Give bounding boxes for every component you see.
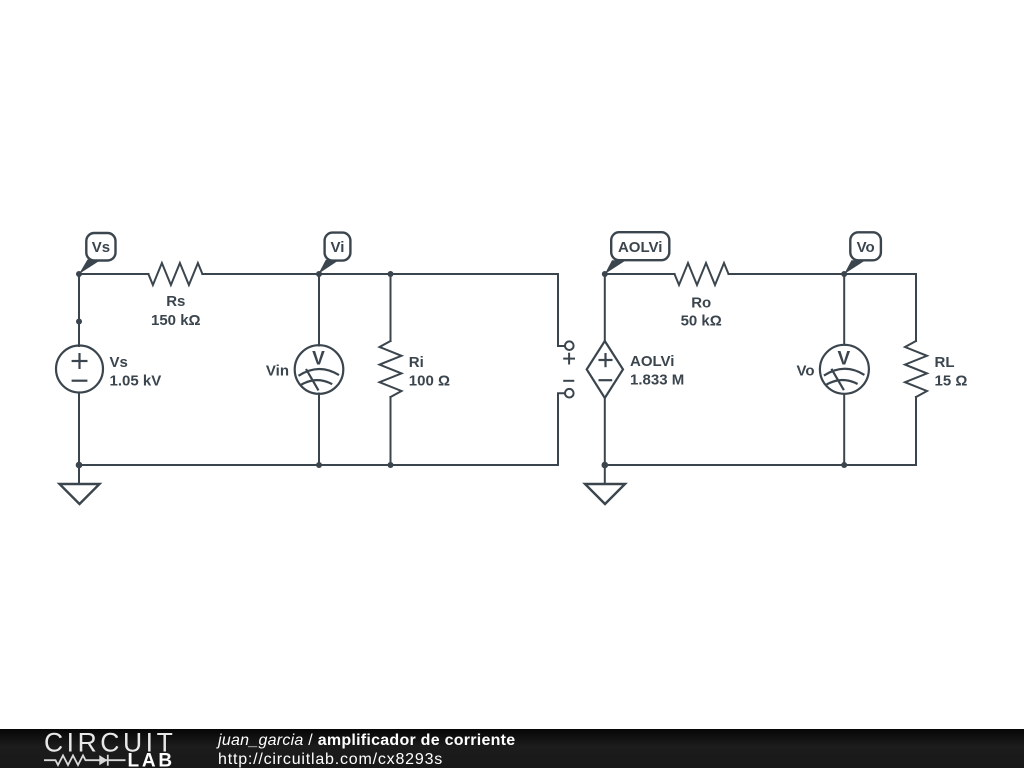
wire Vo node to top-right corner xyxy=(844,273,916,275)
voltmeter Vo xyxy=(820,345,869,394)
voltmeter Vin xyxy=(295,345,344,394)
svg-text:Vs: Vs xyxy=(110,354,128,371)
svg-text:Vo: Vo xyxy=(857,239,875,256)
svg-text:100 Ω: 100 Ω xyxy=(409,373,450,390)
wire Vo voltmeter top lead xyxy=(843,274,845,345)
wire Vo voltmeter bottom lead xyxy=(843,394,845,465)
resistor RL labels xyxy=(935,354,968,390)
svg-text:50 kΩ: 50 kΩ xyxy=(681,313,722,330)
ground (right) xyxy=(585,484,625,504)
svg-text:Vs: Vs xyxy=(92,239,110,256)
svg-text:150 kΩ: 150 kΩ xyxy=(151,312,201,329)
svg-text:1.05 kV: 1.05 kV xyxy=(110,372,162,389)
resistor Rs xyxy=(148,263,202,285)
wire left rail: Vs node down to source xyxy=(78,274,80,346)
terminal + (open circle) xyxy=(563,341,575,364)
wire AOLVi node to Ro xyxy=(605,273,675,275)
wire Vin voltmeter bottom lead xyxy=(318,394,320,466)
svg-text:juan_garcia / amplificador de: juan_garcia / amplificador de corriente xyxy=(216,732,515,749)
svg-text:V: V xyxy=(312,349,325,370)
wire Vin voltmeter top lead xyxy=(318,274,320,346)
resistor RL xyxy=(905,341,927,397)
wire Ro to Vo node xyxy=(729,273,845,275)
terminal - (open circle) xyxy=(563,381,574,398)
svg-text:Vin: Vin xyxy=(266,363,289,380)
svg-text:Ro: Ro xyxy=(691,294,711,311)
voltage source Vs labels xyxy=(110,354,162,390)
wire AOLVi source top lead xyxy=(604,274,606,341)
wire Rs to Vi node xyxy=(202,273,319,275)
resistor Ro labels xyxy=(681,294,722,329)
ground (left) xyxy=(60,484,100,504)
wire Ri bottom lead xyxy=(390,397,392,465)
svg-text:Rs: Rs xyxy=(166,293,185,310)
svg-text:Vo: Vo xyxy=(796,363,814,380)
svg-text:1.833 M: 1.833 M xyxy=(630,372,684,389)
svg-text:V: V xyxy=(838,348,851,369)
svg-text:AOLVi: AOLVi xyxy=(618,239,662,256)
resistor Ri labels xyxy=(409,354,450,390)
svg-text:Vi: Vi xyxy=(331,239,345,256)
wire right rail down to RL xyxy=(915,274,917,341)
node label Vo xyxy=(844,232,881,274)
wire bottom rail left circuit xyxy=(79,464,558,466)
svg-text:15 Ω: 15 Ω xyxy=(935,373,968,390)
wire source bottom to bottom rail xyxy=(78,393,80,466)
wire right drop to terminal + xyxy=(558,274,565,346)
node label Vs xyxy=(79,233,116,274)
resistor Ro xyxy=(675,263,729,285)
dependent source AOLVi (diamond) xyxy=(587,341,623,398)
svg-text:Ri: Ri xyxy=(409,354,424,371)
dependent source AOLVi labels xyxy=(630,353,684,389)
footer bar xyxy=(0,729,1024,768)
wire Ri top to top-right corner xyxy=(391,273,559,275)
wire left ground stem xyxy=(78,465,80,484)
wire right ground stem xyxy=(604,465,606,484)
node label Vi xyxy=(319,233,351,274)
svg-text:RL: RL xyxy=(935,354,955,371)
resistor Ri xyxy=(380,341,402,397)
svg-text:LAB: LAB xyxy=(128,750,175,768)
node label AOLVi xyxy=(605,232,670,274)
wire bottom rail right circuit xyxy=(605,464,916,466)
wire terminal - to bottom rail xyxy=(558,393,565,465)
voltage source Vs xyxy=(56,346,103,393)
junction dots xyxy=(76,271,848,468)
wire Ri top lead xyxy=(390,274,392,341)
wire Vi node to Ri top xyxy=(319,273,391,275)
resistor Rs labels xyxy=(151,293,201,329)
wire RL bottom lead xyxy=(915,397,917,465)
svg-text:AOLVi: AOLVi xyxy=(630,353,674,370)
svg-text:http://circuitlab.com/cx8293s: http://circuitlab.com/cx8293s xyxy=(218,751,443,768)
footer logo resistor-diode mark xyxy=(44,755,126,766)
wire AOLVi source bottom lead xyxy=(604,398,606,465)
wire top rail left: Vs node to Rs xyxy=(79,273,148,275)
